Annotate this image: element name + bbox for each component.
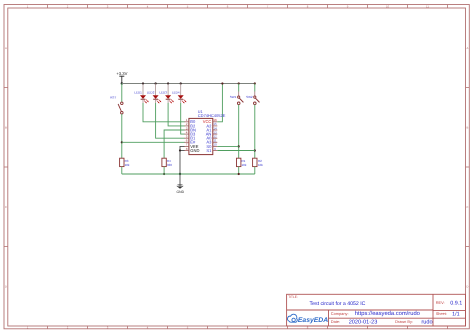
svg-text:9: 9	[214, 147, 216, 151]
resistor R1	[237, 158, 247, 174]
svg-text:Drawn By:: Drawn By:	[395, 319, 413, 324]
U1 pin 13 AN	[206, 130, 218, 136]
LED2	[147, 82, 161, 103]
U1 pin 10 S0	[206, 143, 217, 149]
wire GND column	[179, 151, 181, 175]
svg-text:RST: RST	[110, 96, 116, 100]
svg-text:LED3: LED3	[159, 90, 167, 94]
svg-text:A: A	[466, 46, 468, 50]
svg-text:10: 10	[386, 4, 390, 8]
wire BN to R4	[164, 130, 185, 158]
wire LED4 to B3	[181, 103, 185, 134]
U1 pin 5 B1	[184, 135, 196, 141]
wire top power rail	[122, 83, 255, 85]
node GND rail junction	[179, 173, 181, 175]
U1 pin 16 VCC	[203, 118, 218, 124]
node S1 / SW2 junction	[254, 149, 256, 151]
wire bottom ground rail	[122, 173, 255, 175]
svg-text:TITLE:: TITLE:	[288, 295, 298, 299]
LED4	[172, 82, 186, 103]
title block	[287, 294, 466, 326]
svg-text:B: B	[5, 125, 7, 129]
switch RST	[110, 84, 123, 159]
U1 pin 12 A0	[206, 135, 217, 141]
svg-text:LED1: LED1	[134, 90, 142, 94]
switch SW1	[230, 82, 244, 158]
U1 pin 14 A1	[206, 126, 217, 132]
LED3	[159, 82, 173, 103]
node R4 / rail junction	[163, 173, 165, 175]
U1 pin 15 A2	[206, 122, 217, 128]
svg-text:GND: GND	[177, 190, 185, 194]
svg-text:D: D	[466, 284, 468, 288]
U1 pin 4 B3	[184, 130, 196, 136]
EasyEDA logo	[288, 314, 329, 324]
svg-text:Company:: Company:	[331, 311, 349, 316]
U1 pin 1 B0	[184, 118, 196, 124]
wire S0 to SW1	[217, 145, 238, 147]
svg-text:A: A	[5, 46, 7, 50]
LED1	[134, 82, 148, 103]
wire LED3 to B2	[168, 103, 185, 126]
svg-text:B: B	[466, 125, 468, 129]
U1 pin 9 S1	[206, 147, 217, 153]
svg-text:0.9.1: 0.9.1	[450, 301, 462, 307]
svg-text:Date:: Date:	[331, 319, 340, 324]
op-amp U1 CD74HC4052E	[189, 110, 226, 155]
wire LED1 to B0	[143, 103, 185, 122]
node S0 / SW1 junction	[238, 145, 240, 147]
svg-text:330: 330	[167, 163, 172, 167]
svg-text:10k: 10k	[258, 163, 263, 167]
svg-text:11: 11	[426, 4, 429, 8]
ground GND symbol	[176, 174, 184, 194]
U1 pin 11 A3	[206, 139, 217, 145]
svg-text:+3.3V: +3.3V	[116, 71, 127, 76]
svg-text:C: C	[5, 205, 7, 209]
svg-text:EasyEDA: EasyEDA	[298, 317, 328, 324]
wire S1 to SW2	[217, 150, 255, 152]
svg-text:S1: S1	[206, 148, 212, 153]
wire GND pin bracket	[180, 150, 185, 152]
svg-text:2020-01-23: 2020-01-23	[349, 320, 378, 326]
U1 pin 8 GND	[184, 147, 199, 153]
svg-text:10k: 10k	[125, 163, 130, 167]
svg-text:D: D	[5, 284, 7, 288]
svg-text:GND: GND	[190, 148, 199, 153]
wire VCC to rail	[217, 84, 222, 122]
node VCC rail junction	[221, 82, 223, 84]
wire LED2 to B1	[156, 103, 185, 138]
svg-text:Test circuit for a 4052 IC: Test circuit for a 4052 IC	[310, 301, 366, 307]
wire RST to E#	[122, 141, 185, 143]
frame ticks bottom	[48, 326, 448, 329]
svg-text:Sheet:: Sheet:	[436, 311, 447, 316]
node VEE/GND junction	[179, 149, 181, 151]
svg-text:LED2: LED2	[147, 90, 155, 94]
svg-text:REV:: REV:	[436, 300, 445, 305]
svg-text:C: C	[466, 205, 468, 209]
svg-text:1/1: 1/1	[452, 311, 460, 317]
node R1 rail junction	[238, 173, 240, 175]
resistor R3	[120, 158, 130, 174]
frame ticks right	[466, 88, 470, 247]
U1 pin 7 VEE	[184, 143, 198, 149]
svg-text:https://easyeda.com/rudo: https://easyeda.com/rudo	[355, 310, 420, 317]
svg-text:SW2: SW2	[246, 95, 253, 99]
node +3.3V rail junction	[121, 82, 123, 84]
svg-text:8: 8	[186, 147, 188, 151]
title block texts	[288, 295, 462, 326]
switch SW2	[246, 82, 259, 158]
wire VEE bracket	[180, 146, 185, 150]
resistor R2	[253, 158, 264, 174]
svg-text:rudo: rudo	[421, 319, 432, 326]
svg-text:SW1: SW1	[230, 95, 237, 99]
U1 pin 3 BN	[184, 126, 196, 132]
svg-text:10k: 10k	[242, 163, 247, 167]
U1 pin 6 E#	[184, 139, 196, 145]
U1 pin 2 B2	[184, 122, 196, 128]
power flag +3.3V	[116, 71, 127, 84]
node RST / E# junction	[121, 141, 123, 143]
resistor R4	[162, 158, 172, 174]
frame ticks top	[48, 5, 448, 9]
svg-text:LED4: LED4	[172, 90, 180, 94]
frame ticks left	[4, 88, 8, 247]
svg-text:CD74HC4052E: CD74HC4052E	[198, 113, 226, 118]
